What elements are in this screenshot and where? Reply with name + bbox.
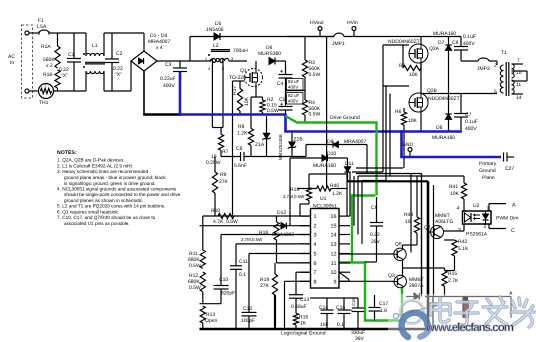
svg-text:Plane: Plane [482,175,495,181]
svg-text:15: 15 [331,224,337,230]
svg-text:HVin: HVin [347,20,358,26]
svg-text:5. L2 and T1 are PQ2020 cores: 5. L2 and T1 are PQ2020 cores with 14 pi… [57,204,165,209]
svg-text:TH1: TH1 [39,100,49,106]
svg-text:2907A: 2907A [409,283,424,289]
svg-text:MURS360: MURS360 [258,51,281,57]
svg-text:14: 14 [516,95,522,101]
svg-text:PWM Dim: PWM Dim [496,216,519,222]
svg-text:2.7M,0.5W: 2.7M,0.5W [241,237,263,242]
svg-text:is signal/logic ground, green: is signal/logic ground, green is drive g… [64,181,156,186]
svg-text:R15: R15 [448,271,457,277]
svg-text:11: 11 [516,82,521,88]
svg-text:C3: C3 [165,62,172,68]
svg-text:0.5W: 0.5W [189,263,201,269]
svg-text:Z1B: Z1B [294,137,304,143]
svg-text:U1: U1 [320,196,327,202]
svg-text:11: 11 [331,261,337,267]
svg-text:14: 14 [331,233,337,239]
svg-text:82 uF: 82 uF [288,79,300,84]
svg-text:1.2K: 1.2K [237,131,248,137]
svg-text:C2: C2 [116,51,123,57]
svg-text:10K: 10K [244,96,250,106]
svg-text:D7: D7 [438,40,445,46]
svg-text:PS2561A: PS2561A [466,232,488,238]
svg-text:4: 4 [457,206,460,212]
svg-text:10: 10 [405,219,411,225]
svg-text:associated U1 pins as possible: associated U1 pins as possible. [64,221,130,226]
svg-text:Drive Ground: Drive Ground [330,115,360,121]
svg-text:1K: 1K [300,321,307,327]
svg-text:x 2: x 2 [46,63,53,69]
svg-text:3: 3 [231,57,233,61]
svg-text:R1A: R1A [41,44,51,50]
svg-text:27K: 27K [219,179,229,185]
svg-text:R7: R7 [222,149,229,155]
svg-text:0.1: 0.1 [239,272,246,278]
svg-text:HVout: HVout [310,20,324,26]
svg-text:C: C [511,228,515,234]
svg-text:820pF: 820pF [221,291,235,297]
svg-text:R9: R9 [220,172,227,178]
svg-text:1. Q2A, Q2B are D-Pak devices.: 1. Q2A, Q2B are D-Pak devices. [57,158,124,163]
svg-text:L1: L1 [92,43,98,49]
svg-text:MURA160: MURA160 [432,135,455,141]
svg-text:82 uF: 82 uF [288,93,300,98]
svg-text:400V: 400V [465,126,477,132]
svg-text:C8: C8 [236,146,243,152]
svg-text:Q2A: Q2A [429,46,440,52]
svg-text:36V: 36V [355,336,365,342]
svg-text:25V: 25V [371,239,381,245]
svg-text:4. NCL30051 signal grounds and: 4. NCL30051 signal grounds and associate… [57,186,177,191]
svg-text:7: 7 [517,58,520,64]
svg-text:R10: R10 [211,208,220,214]
svg-text:MRA4007: MRA4007 [344,139,366,145]
svg-text:U2: U2 [473,203,480,209]
svg-text:R41: R41 [449,184,458,190]
svg-text:R18: R18 [259,230,268,236]
svg-text:1: 1 [314,214,317,220]
svg-text:1.5A: 1.5A [36,24,47,30]
svg-text:1N5406: 1N5406 [206,27,224,33]
svg-text:0.22: 0.22 [370,232,380,238]
svg-text:400V: 400V [288,99,298,104]
svg-text:5.6nF: 5.6nF [234,163,247,169]
svg-text:C17: C17 [379,301,388,307]
svg-text:Z1A: Z1A [255,142,265,148]
svg-text:ground plane areas - blue is p: ground plane areas - blue is power groun… [64,175,166,180]
svg-text:6. Q1 requires small heatsink.: 6. Q1 requires small heatsink. [57,209,119,214]
svg-text:Q2B: Q2B [427,88,438,94]
svg-text:7: 7 [314,270,317,276]
svg-text:6: 6 [314,261,317,267]
svg-text:Q7: Q7 [424,225,431,231]
svg-text:0.1: 0.1 [337,322,344,328]
svg-text:0.1uF: 0.1uF [463,34,476,40]
svg-text:0.5W: 0.5W [309,112,321,118]
svg-text:C14: C14 [319,305,328,311]
svg-text:C9: C9 [371,205,378,211]
svg-text:2.7K: 2.7K [448,278,459,284]
svg-text:400V: 400V [163,83,175,89]
svg-text:700uH: 700uH [233,48,248,54]
svg-text:5: 5 [314,252,317,258]
svg-text:should be single-point connect: should be single-point connected to the … [64,192,181,197]
svg-text:L2: L2 [213,43,219,49]
svg-text:100pF: 100pF [241,318,255,324]
svg-text:7. C10, C17, and Q7/R40 should: 7. C10, C17, and Q7/R40 should be as clo… [57,215,156,220]
svg-text:Q1: Q1 [240,68,247,74]
svg-text:NDD04N60ZT: NDD04N60ZT [388,39,420,45]
svg-text:D11: D11 [345,161,354,167]
svg-text:10K: 10K [408,118,418,124]
svg-text:0.68uF: 0.68uF [291,304,307,310]
svg-text:R40: R40 [330,183,339,189]
svg-text:0.5W: 0.5W [309,72,321,78]
svg-text:5: 5 [494,89,497,95]
svg-text:R8: R8 [238,124,245,130]
svg-text:NOTES:: NOTES: [57,150,77,156]
svg-text:C7: C7 [465,112,472,118]
svg-text:C4: C4 [277,81,284,87]
svg-text:In: In [10,60,14,66]
svg-text:D8: D8 [436,125,443,131]
svg-text:MURA160: MURA160 [433,31,456,37]
svg-text:8: 8 [314,279,317,285]
svg-text:3. Heavy schematic lines are r: 3. Heavy schematic lines are recommended [57,169,149,174]
svg-text:MURA160: MURA160 [313,163,336,169]
svg-text:C13: C13 [300,297,309,303]
svg-text:12: 12 [331,252,337,258]
svg-text:3: 3 [314,233,317,239]
svg-text:4: 4 [208,67,210,71]
svg-text:GND: GND [402,142,414,148]
svg-text:0.25W: 0.25W [206,160,221,166]
svg-text:2: 2 [314,224,317,230]
svg-text:R1B: R1B [43,72,53,78]
svg-text:C10: C10 [219,277,228,283]
svg-text:R43: R43 [404,212,413,218]
svg-text:0.5W: 0.5W [267,108,279,114]
svg-text:Q3: Q3 [388,273,395,279]
svg-text:C6: C6 [452,40,459,46]
svg-text:1: 1 [205,57,207,61]
svg-text:MMSZ5248B: MMSZ5248B [278,134,283,160]
svg-text:D10: D10 [327,151,336,157]
svg-text:2. L1 is Coilcraft E3492-AL (2: 2. L1 is Coilcraft E3492-AL (2.9 mH) [57,163,133,168]
svg-text:"X": "X" [115,72,122,78]
svg-text:1.2K: 1.2K [332,191,343,197]
svg-text:13: 13 [331,242,337,248]
svg-text:0.22uF: 0.22uF [160,76,176,82]
svg-text:16: 16 [331,214,337,220]
svg-text:Ground: Ground [479,168,496,174]
svg-text:C15: C15 [336,305,345,311]
svg-text:C1: C1 [68,52,75,58]
svg-text:C11: C11 [239,259,248,265]
svg-text:10K: 10K [409,72,419,78]
svg-text:4: 4 [314,242,317,248]
svg-text:A06LTG: A06LTG [435,219,453,225]
svg-text:"X": "X" [61,73,68,79]
svg-text:R5: R5 [399,63,406,69]
svg-text:JMP3: JMP3 [477,66,490,72]
svg-text:D12: D12 [277,210,286,216]
svg-text:2: 2 [494,63,497,69]
svg-text:R14: R14 [290,187,299,193]
svg-text:TO-220: TO-220 [229,75,246,81]
svg-text:x 4: x 4 [156,45,163,51]
svg-text:T1: T1 [501,50,507,56]
svg-text:C27: C27 [505,166,514,172]
svg-text:NDD04N60ZT: NDD04N60ZT [428,96,460,102]
svg-text:Open: Open [205,318,217,324]
svg-text:2: 2 [484,224,487,230]
svg-text:1nF: 1nF [320,322,329,328]
svg-text:D9: D9 [327,139,334,145]
svg-text:JMP1: JMP1 [332,41,345,47]
svg-text:10: 10 [516,70,522,76]
svg-text:0.5W: 0.5W [189,285,201,291]
svg-text:5.1K: 5.1K [458,246,469,252]
svg-text:0.1uF: 0.1uF [465,119,478,125]
svg-text:R42: R42 [458,239,467,245]
svg-text:C16: C16 [351,298,356,306]
svg-text:Logic/signal Ground: Logic/signal Ground [281,331,326,337]
svg-text:C12: C12 [243,306,252,312]
svg-text:ground planes as shown in sche: ground planes as shown in schematic. [64,198,143,203]
svg-text:Q6: Q6 [395,242,402,248]
svg-text:27K: 27K [260,283,270,289]
svg-text:R6: R6 [395,109,402,115]
svg-text:10: 10 [331,270,337,276]
svg-text:400V: 400V [288,85,298,90]
svg-text:10K: 10K [450,191,460,197]
svg-text:1.8: 1.8 [380,308,387,314]
svg-text:9: 9 [334,279,337,285]
svg-text:R17: R17 [232,86,238,95]
svg-text:Primary: Primary [479,161,497,167]
svg-text:www.elecfans.com: www.elecfans.com [425,322,514,334]
svg-text:4.7K, 0.5W: 4.7K, 0.5W [213,219,238,225]
svg-text:A: A [512,203,516,209]
svg-text:2.7M,0.5W: 2.7M,0.5W [283,194,305,199]
